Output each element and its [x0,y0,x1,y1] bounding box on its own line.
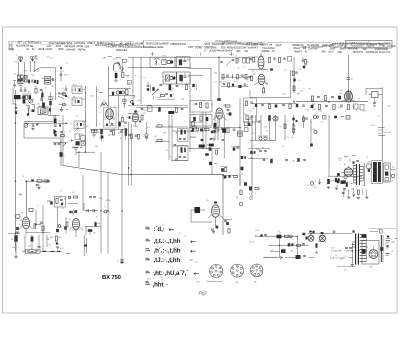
svg-text:50: 50 [69,197,71,199]
svg-text:14.4 k: 14.4 k [249,242,254,244]
svg-text:1k: 1k [65,105,67,107]
grid components right of B2 [225,104,231,116]
svg-text:0.5: 0.5 [351,257,354,259]
wire tuner bottom bus [13,88,16,104]
svg-text:2M: 2M [19,194,22,196]
svg-text:0.02: 0.02 [331,248,335,250]
svg-text:300: 300 [136,112,139,114]
B4 vertical x224 [222,115,226,158]
wire under B2 [213,128,240,133]
svg-text:0.05: 0.05 [188,68,192,70]
vertical x275 tube [273,115,278,140]
svg-text:52: 52 [20,220,22,222]
below-header tick marks [151,52,238,57]
node right column [60,66,64,81]
svg-text:S2.3: S2.3 [81,134,85,136]
tube socket V2 bottom view [231,264,244,277]
IF box B outline [176,57,190,68]
resistor box stack 504 [42,76,51,84]
PSU verticals [280,236,298,257]
left bus extension [252,104,296,109]
pilot lamp L1 [306,231,315,242]
svg-text:50: 50 [22,213,24,215]
coil legend row 2 [146,238,196,245]
switch dark boxes [76,141,86,145]
svg-text:0.05: 0.05 [262,91,266,93]
svg-text:2M: 2M [339,93,342,95]
svg-text:78: 78 [341,90,343,92]
svg-text:Kondensatoraansl: Kondensatoraansl [207,280,224,283]
capacitor T lead [37,235,40,248]
svg-text:15: 15 [124,128,126,130]
B4 bottom cluster d [209,162,217,165]
svg-text:10k: 10k [300,90,303,92]
svg-text:10k: 10k [14,73,17,75]
IF T4 can right [244,98,257,126]
svg-text:68: 68 [155,136,157,138]
svg-text:0.02: 0.02 [19,224,23,226]
svg-text:25: 25 [321,122,323,124]
fuse component [315,243,318,253]
svg-text:,hht: ,hht [153,282,164,289]
det comp 3 [343,175,347,190]
svg-text:15: 15 [184,236,186,238]
svg-text:220: 220 [39,224,42,226]
svg-text:100: 100 [249,111,252,113]
wire bottom stubs D2 [66,235,87,256]
svg-text:3: 3 [63,71,64,73]
converter top caps [220,58,249,66]
svg-text:3: 3 [367,157,368,159]
grid leak caps [34,210,41,229]
svg-text:3xuRx47: 3xuRx47 [247,46,258,50]
ground AVC [36,184,41,190]
svg-text:8: 8 [162,224,163,226]
B4 short rails [190,122,203,137]
capacitor C13 [65,86,68,90]
IF box B internals [179,57,189,65]
svg-text:72: 72 [71,124,73,126]
output transformer T11 core [357,164,360,185]
svg-text:0.02: 0.02 [195,132,199,134]
svg-text:8xW: 8xW [158,45,164,49]
svg-text:2Sn1n71V: 2Sn1n71V [379,51,391,54]
svg-text:10k: 10k [21,80,24,82]
waveband coil box S2.2 [72,96,82,105]
IF box C outline [163,72,176,84]
svg-text:25: 25 [181,81,183,83]
svg-text:180: 180 [103,58,106,60]
A7 top loop [366,89,382,95]
wire vertical pair A [133,57,141,105]
wire double rail y121 [24,121,68,123]
B4 vertical x212 [211,148,213,175]
svg-text:220: 220 [28,245,31,247]
svg-text:68: 68 [270,140,272,142]
svg-text:4700: 4700 [318,110,322,112]
coil legend row 3 [146,248,196,255]
x348 marks [347,78,353,82]
comp row y160 [248,158,306,163]
svg-text:a1a: a1a [36,41,41,45]
svg-text:12: 12 [161,279,163,281]
svg-text:5.6: 5.6 [282,146,284,148]
svg-text:12: 12 [72,100,74,102]
svg-text:47: 47 [72,192,74,194]
B4 bottom blobs a [205,147,220,155]
svg-text:,ht:·,hU,a´7,´: ,ht:·,hU,a´7,´ [154,270,189,277]
switch contact row [58,92,67,99]
IF block lower [178,146,189,161]
resistor R3 group [35,86,42,94]
svg-text:3: 3 [264,118,265,120]
bottom faint line [337,267,356,272]
socket V2 caption [236,282,239,284]
antenna A1 symbol [16,55,23,62]
svg-text:63: 63 [11,239,13,241]
dark box x269 [268,115,271,140]
svg-text:13: 13 [128,82,130,84]
svg-text:1k: 1k [199,104,201,106]
svg-text:5.6: 5.6 [123,125,126,127]
svg-text:,t,t.:·.,t,hh: ,t,t.:·.,t,hh [154,238,181,245]
components right of FM box [122,115,127,123]
tube B6 output driver [69,219,84,238]
wire mixer left rail [107,66,109,107]
transformer top box [362,235,367,238]
tube B7 AF output [207,200,224,228]
svg-text:0.1: 0.1 [48,244,50,246]
svg-text:47: 47 [266,130,268,132]
waveband coil box S2.3 [71,121,85,128]
padding capacitor C19 [147,82,150,91]
oscillator coil box [38,105,48,114]
wire output bus y101.5 [296,101,368,103]
svg-text:kS7: kS7 [189,45,194,49]
svg-text:1k: 1k [96,217,98,219]
svg-text:4700: 4700 [256,149,260,151]
svg-text:3: 3 [232,84,233,86]
bus comp row below [296,104,364,110]
electrolytic blob [60,135,65,166]
svg-text:0.1: 0.1 [62,208,64,210]
wire vertical x63 [62,115,64,166]
components B10 left [248,76,252,81]
svg-text:2M: 2M [265,83,268,85]
svg-text:9R18: 9R18 [38,48,45,51]
terminal strip box [26,250,41,253]
osc below-box comps [190,128,212,132]
components y132 [108,131,115,138]
tube B1 mixer [100,107,117,128]
svg-text:100: 100 [174,248,177,250]
svg-text:12: 12 [66,63,68,65]
svg-text:220: 220 [292,160,295,162]
mixer anode rails [108,89,135,96]
svg-text:0.05: 0.05 [39,106,42,108]
C4 top edge cluster [222,175,238,178]
comps right of 504 [51,78,56,81]
svg-text:pF8Fn: pF8Fn [129,44,137,47]
screen resistor [209,124,216,147]
svg-text:1k: 1k [99,138,101,140]
coil box pair lower [22,94,31,99]
resistor chain mid [199,112,206,148]
svg-text:500: 500 [386,247,389,249]
svg-text:10k: 10k [306,62,309,64]
svg-text:15: 15 [378,116,380,118]
right cluster C1 edge [64,217,68,233]
A3 bottom rails [128,105,188,107]
top label row [103,57,129,72]
svg-text:220: 220 [181,98,184,100]
components pair left [128,134,139,139]
circle node 48 [59,103,66,106]
cathode comps B11 [346,182,353,186]
svg-text:50: 50 [336,186,338,188]
wire x382 long [381,87,383,161]
svg-text:15: 15 [20,61,22,63]
svg-text:50: 50 [252,133,254,135]
svg-text:10k: 10k [388,132,391,134]
wire y127 rail [155,125,188,127]
IF block upper [178,129,189,142]
pilot lamp L2 [318,232,326,241]
figure caption Fig 7 [199,290,208,295]
svg-text:100: 100 [368,161,371,163]
svg-text:100: 100 [223,82,226,84]
svg-text:4k6: 4k6 [321,51,326,54]
svg-text:10k: 10k [290,250,293,252]
svg-text:47: 47 [237,60,239,62]
components right of B9 [268,57,291,63]
svg-text:300: 300 [312,104,315,106]
far right tilde marks [391,238,397,253]
wire rail x26.5 [26,181,28,218]
svg-text:15: 15 [341,173,343,175]
svg-text:6: 6 [128,61,129,63]
wire rail x15.5 [15,90,17,252]
diode box outline [55,197,66,208]
svg-text:4700: 4700 [82,121,86,123]
wire y160 stub [172,159,188,161]
component value labels [12,56,391,284]
potentiometer arrow [152,89,158,99]
right chain x50 [48,92,60,116]
B4 bottom blob f [241,167,244,175]
psu small box [302,233,305,235]
vertical x255 caps [256,115,262,140]
resistor below B10 [262,85,264,93]
dark component x95 [85,222,101,227]
svg-text:0.02: 0.02 [311,129,315,131]
svg-text:05O: 05O [338,51,343,54]
svg-text:FS4p: FS4p [195,45,202,49]
svg-text:15: 15 [76,115,78,117]
tube B2 converter top cap [217,58,220,102]
svg-text:0.05: 0.05 [338,107,342,109]
svg-text:1k: 1k [173,93,175,95]
svg-text:BX 750: BX 750 [102,275,121,281]
svg-text:c4: c4 [391,251,393,253]
svg-text:5.6: 5.6 [61,88,63,90]
svg-text:1k: 1k [326,184,328,186]
converter comp row lower [221,83,248,88]
svg-text:··: ·· [189,257,193,264]
ground aerial [10,81,17,87]
amp baseline y233.5 [308,233,352,235]
below tube comps [105,124,116,126]
wire x348 drop [347,55,349,92]
det comp 1 [327,179,330,189]
svg-text:61: 61 [94,233,96,235]
IF box A coil [154,58,173,65]
wire to RF rail [39,68,55,100]
svg-text:n23W: n23W [45,48,52,51]
svg-text:300: 300 [108,109,111,111]
capacitor at x122 end [117,260,124,264]
svg-text:220: 220 [21,97,24,99]
svg-text:0.1: 0.1 [83,89,86,91]
svg-text:uOOWR: uOOWR [382,43,391,45]
svg-text:300: 300 [387,105,390,107]
svg-text:8: 8 [140,77,141,79]
B4 blob pair c [241,156,246,159]
components right of B7 [223,220,232,234]
output tube top text [344,156,359,164]
components left of tube B5 [16,209,33,219]
svg-text:68: 68 [28,91,30,93]
svg-text:47: 47 [120,138,122,140]
svg-text:0.05: 0.05 [147,279,151,281]
wire x364.5 [364,163,366,186]
svg-text:4700: 4700 [157,97,161,99]
svg-text:0.02: 0.02 [137,100,141,102]
circle pair y138 [258,136,268,140]
svg-text:300: 300 [164,79,167,81]
electrolytic C60 [11,235,18,258]
det left stub [307,179,321,187]
cathode components B5 [16,227,19,234]
svg-text:8: 8 [60,191,61,193]
cluster C4 top right [236,175,247,206]
svg-text:47: 47 [262,147,264,149]
PSU comp a [260,234,266,237]
wire rail x108 [107,172,109,254]
A3 bottom comps [130,100,183,113]
svg-text:0.1: 0.1 [218,112,221,114]
dark oval x119 [118,121,121,126]
svg-text:68: 68 [236,197,238,199]
svg-text:25: 25 [207,144,209,146]
svg-text:220: 220 [248,117,251,119]
wire y146 stub [172,145,188,147]
IF box A outline [150,57,175,67]
svg-text:15: 15 [327,101,329,103]
antenna A2 symbol [30,55,37,61]
svg-text:5.6: 5.6 [215,82,218,84]
cluster right of box [60,132,65,137]
svg-text:0.1: 0.1 [226,120,228,122]
svg-text:10k: 10k [141,114,144,116]
comp A7 box [369,92,383,107]
svg-text:0.05: 0.05 [234,81,238,83]
svg-text:12: 12 [324,116,326,118]
PSU rail text [249,242,254,244]
svg-text:25373O3: 25373O3 [353,51,364,54]
right columns mixer [119,96,127,129]
switch bottom marks [73,147,84,155]
components x55-60 [55,236,59,249]
svg-text:15: 15 [22,176,24,178]
svg-text:a.b: a.b [271,249,274,251]
grid resistor dark [114,71,118,82]
svg-text:3: 3 [104,206,105,208]
svg-text:61: 61 [193,105,195,107]
svg-text:R6x4p0: R6x4p0 [120,43,129,46]
volume pot cluster [56,207,61,232]
svg-text:zb: zb [391,181,393,183]
capacitor C21 stack [190,122,196,138]
svg-text:0.05: 0.05 [361,185,365,187]
coil legend row 4 [146,257,193,264]
wire rail y129.5 [90,129,128,131]
mains text 2 [330,257,352,259]
wire x240 long [239,98,241,186]
PSU second rail [268,243,308,246]
B6 left column [310,119,317,147]
wire x252 long [251,115,253,200]
svg-text:8: 8 [135,76,136,78]
svg-text:0.02: 0.02 [249,60,252,62]
svg-text:RdF4a: RdF4a [78,48,86,51]
detector row rail [328,175,362,177]
svg-text:7WpR4: 7WpR4 [294,50,303,53]
IF box D internals [179,73,188,82]
svg-text:9: 9 [100,112,101,114]
wire y131 stub [172,130,190,132]
T11 primary rungs [353,166,356,183]
components x42 column [40,205,44,252]
capacitor C31 w ground [31,123,34,130]
osc section box lower [190,115,212,127]
tube B5 AF amp [19,217,33,235]
resistor x42 vert [41,90,45,113]
svg-text:2M: 2M [35,59,38,61]
svg-text:0.05: 0.05 [292,129,296,131]
svg-text:10k: 10k [203,130,206,132]
capacitor pair mains [345,248,352,249]
transformer windings [360,235,367,262]
mains text 1 [331,250,352,253]
comp chain x303 [303,115,308,128]
svg-text:0.5: 0.5 [344,157,346,159]
PSU top rail [255,235,297,237]
svg-text:0.05: 0.05 [352,105,355,107]
svg-text:30: 30 [253,74,255,76]
wire x223 down [222,175,224,235]
components above B6 [68,196,78,213]
C7 tick marks [370,230,385,235]
svg-text:1k: 1k [261,65,263,67]
wire y232 segments [8,232,50,235]
svg-text:25: 25 [335,255,337,257]
svg-text:12: 12 [160,276,162,278]
wire long rail y148 [188,148,210,150]
far column comps [302,57,307,68]
transformer left taps [352,242,355,247]
waveband coil box S2.1 [72,84,82,93]
